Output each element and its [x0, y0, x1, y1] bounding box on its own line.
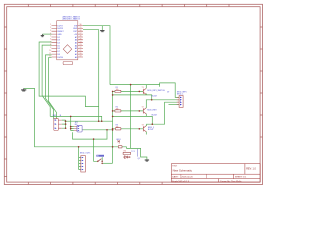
svg-text:19: 19 — [80, 56, 82, 58]
svg-text:10k: 10k — [116, 109, 119, 111]
svg-text:A4: A4 — [75, 44, 77, 47]
svg-text:EagleCAD v9.1.3: EagleCAD v9.1.3 — [172, 180, 190, 183]
svg-text:11: 11 — [49, 53, 51, 55]
svg-text:D6: D6 — [57, 48, 59, 50]
svg-text:RESET: RESET — [57, 31, 64, 33]
svg-text:D8: D8 — [57, 54, 59, 56]
svg-text:BC547: BC547 — [148, 129, 154, 131]
svg-text:20: 20 — [80, 53, 82, 55]
svg-text:GND: GND — [73, 28, 78, 30]
svg-text:rd: rd — [119, 142, 121, 144]
svg-text:3: 3 — [50, 30, 51, 32]
svg-text:New Schematic: New Schematic — [173, 168, 193, 172]
svg-text:5: 5 — [50, 36, 51, 38]
svg-text:29: 29 — [80, 27, 82, 29]
svg-text:TITLE:: TITLE: — [172, 165, 178, 167]
svg-text:A5: A5 — [75, 42, 77, 45]
svg-text:BC547: BC547 — [152, 114, 158, 116]
svg-text:9: 9 — [50, 47, 51, 49]
svg-text:2: 2 — [50, 27, 51, 29]
svg-text:10k: 10k — [116, 89, 119, 91]
svg-text:25: 25 — [80, 39, 82, 41]
svg-text:BC547: BC547 — [152, 95, 158, 97]
svg-text:DATE:: DATE: — [172, 176, 179, 179]
svg-text:MOD_OUT1: MOD_OUT1 — [80, 153, 91, 155]
svg-text:D4: D4 — [57, 43, 59, 45]
svg-text:T2: T2 — [142, 107, 144, 109]
svg-text:T3: T3 — [142, 125, 144, 127]
svg-text:A0: A0 — [75, 56, 77, 59]
svg-text:6: 6 — [50, 39, 51, 41]
svg-text:28: 28 — [80, 30, 82, 32]
svg-text:MOD_1: MOD_1 — [177, 94, 184, 96]
svg-text:D3: D3 — [57, 40, 59, 42]
svg-text:23: 23 — [80, 44, 82, 46]
svg-text:21: 21 — [80, 50, 82, 52]
svg-text:MOD_INP2: MOD_INP2 — [147, 109, 156, 111]
svg-text:A2: A2 — [75, 50, 77, 53]
svg-text:MOD_INP1_SWITCH: MOD_INP1_SWITCH — [147, 90, 165, 92]
svg-text:24: 24 — [80, 41, 82, 43]
svg-text:D7: D7 — [57, 51, 59, 53]
svg-text:12: 12 — [49, 56, 51, 58]
svg-text:SHEET: 1/1: SHEET: 1/1 — [235, 177, 247, 179]
svg-text:GND: GND — [57, 34, 62, 36]
svg-text:4: 4 — [50, 33, 51, 35]
svg-text:REV: 1.0: REV: 1.0 — [246, 168, 256, 171]
svg-text:S1: S1 — [97, 156, 99, 158]
svg-text:8: 8 — [50, 44, 51, 46]
svg-text:1: 1 — [50, 24, 51, 26]
svg-text:D5: D5 — [57, 45, 59, 47]
svg-text:TC1: TC1 — [131, 151, 134, 153]
svg-text:D9/SS: D9/SS — [57, 57, 63, 59]
svg-text:22: 22 — [80, 47, 82, 49]
svg-text:A3: A3 — [75, 47, 77, 50]
svg-text:D2: D2 — [57, 37, 59, 39]
svg-text:30: 30 — [80, 24, 82, 26]
svg-text:10k: 10k — [116, 126, 119, 128]
svg-text:7: 7 — [50, 41, 51, 43]
svg-text:27: 27 — [80, 33, 82, 35]
svg-text:Drawn By: Thor Welle: Drawn By: Thor Welle — [220, 180, 242, 183]
svg-text:10: 10 — [49, 50, 51, 52]
svg-text:A1: A1 — [75, 53, 77, 56]
svg-text:Q1: Q1 — [138, 158, 140, 160]
svg-text:A7: A7 — [75, 36, 77, 39]
svg-text:A6: A6 — [75, 39, 77, 42]
svg-text:D0/RX: D0/RX — [57, 28, 63, 30]
svg-text:ARDUINO_NANO3: ARDUINO_NANO3 — [63, 18, 81, 21]
svg-text:2018-02-20: 2018-02-20 — [182, 177, 194, 179]
svg-text:SV1: SV1 — [53, 115, 57, 117]
svg-text:26: 26 — [80, 36, 82, 38]
svg-text:D1/TX: D1/TX — [57, 25, 63, 27]
svg-text:T1: T1 — [142, 87, 144, 89]
